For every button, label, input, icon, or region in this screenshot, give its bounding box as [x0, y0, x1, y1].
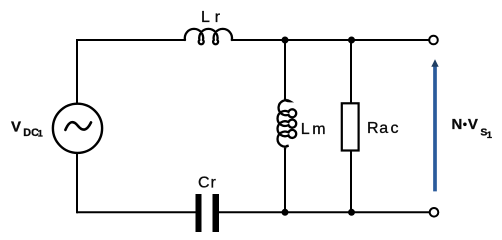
source VDC1	[53, 104, 102, 153]
svg-text:1: 1	[38, 128, 43, 138]
junction node Lm-top	[282, 37, 289, 44]
wire Rac branch upper	[350, 40, 352, 103]
wire left vertical lower	[76, 153, 78, 214]
arrow N*VS1 shaft	[433, 66, 437, 192]
svg-text:r: r	[215, 9, 221, 26]
wire left vertical upper	[76, 39, 78, 104]
svg-text:r: r	[211, 174, 217, 191]
wire top-left horizontal	[77, 39, 185, 41]
svg-text:V: V	[468, 116, 478, 133]
arrow N*VS1 head	[431, 59, 438, 67]
wire top-right horizontal	[232, 39, 430, 41]
inductor Lm	[278, 99, 297, 150]
svg-text:DC: DC	[23, 127, 39, 139]
wire Lm branch upper	[284, 40, 286, 99]
wire bottom-left horizontal	[77, 211, 196, 213]
wire Lm branch lower	[284, 150, 286, 213]
capacitor Cr	[196, 194, 202, 232]
junction node Rac-bottom	[348, 209, 355, 216]
svg-text:L: L	[201, 9, 210, 26]
terminal bottom output	[430, 208, 439, 217]
sine symbol	[65, 122, 91, 130]
terminal top output	[429, 36, 438, 45]
svg-text:c: c	[391, 120, 399, 137]
resistor Rac	[342, 103, 359, 150]
wire bottom-right horizontal	[219, 211, 430, 213]
svg-text:L: L	[301, 121, 310, 138]
junction node Rac-top	[348, 37, 355, 44]
wire Rac branch lower	[350, 151, 352, 213]
svg-text:1: 1	[487, 130, 493, 141]
junction node Lm-bottom	[282, 209, 289, 216]
inductor Lr	[185, 29, 232, 44]
svg-text:V: V	[11, 119, 21, 136]
svg-text:m: m	[312, 121, 325, 138]
svg-text:N: N	[452, 116, 463, 133]
svg-text:a: a	[379, 120, 388, 137]
svg-text:R: R	[367, 120, 379, 137]
svg-text:C: C	[198, 174, 210, 191]
